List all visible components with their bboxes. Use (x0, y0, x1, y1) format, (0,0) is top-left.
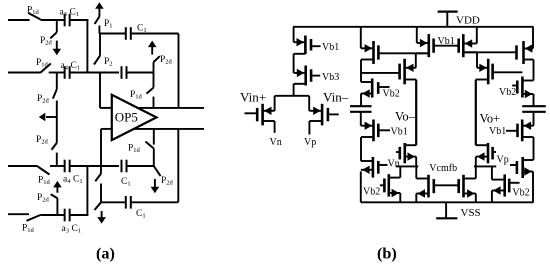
wire feedback bottom up (177, 129, 179, 202)
svg-text:P1d: P1d (130, 90, 143, 101)
wire left column 2 (360, 60, 362, 83)
switch P2d row2 left (53, 89, 57, 98)
wire row2 mid (69, 72, 119, 74)
svg-text:(a): (a) (96, 245, 115, 263)
svg-text:C1: C1 (71, 61, 81, 72)
arrow up row4 (53, 181, 62, 188)
switch P2 bottom (95, 174, 101, 182)
transistor M23 Vp right (521, 157, 524, 178)
wire P1d bottom vertical a (153, 129, 155, 145)
switch P1d bottom mid (145, 142, 153, 149)
wire row1 (40, 19, 64, 21)
switch P2d row1 (50, 32, 57, 38)
wire feedback top right (131, 33, 179, 35)
switch P1d row3 (38, 167, 50, 175)
wire node to row3 (56, 153, 58, 166)
svg-text:Vo–: Vo– (395, 110, 416, 124)
wire right column 4 (533, 112, 535, 126)
wire P2 vertical (99, 34, 101, 56)
svg-text:C1: C1 (137, 24, 147, 35)
wire R drain col (475, 166, 477, 178)
switch P2d row4 (51, 194, 58, 198)
op-amp OP5 (112, 95, 157, 140)
svg-text:a4: a4 (63, 175, 71, 186)
svg-text:P2d: P2d (160, 55, 173, 66)
wire vertical row1-row2 (86, 20, 88, 73)
wire node column mid (56, 101, 58, 143)
wire output bottom (135, 128, 205, 130)
wire P2d branch row1 (56, 20, 58, 32)
svg-text:Vb2: Vb2 (383, 89, 400, 100)
svg-text:P2d: P2d (36, 135, 49, 146)
svg-text:C1: C1 (72, 224, 82, 235)
transistor M10 cascode top left (427, 34, 430, 57)
transistor M9 Vn left (372, 157, 375, 178)
switch P2d row3 left (52, 143, 57, 150)
svg-text:a3: a3 (62, 224, 69, 235)
transistor M20 top right (522, 41, 525, 64)
svg-text:Vn: Vn (270, 137, 282, 148)
wire left column 6 (360, 171, 362, 202)
switch P2d row2 right (154, 56, 160, 62)
capacitor C1 feedback bottom (125, 196, 127, 209)
transistor M3 Vin+ input (261, 104, 264, 126)
arrow down P1 bottom (101, 211, 103, 217)
wire K drain col (399, 166, 401, 177)
wire P1 to fb (98, 26, 100, 34)
wire S1 left (396, 165, 418, 167)
wire bias column to tail (293, 84, 295, 96)
capacitor C1 row3 (121, 160, 123, 173)
wire K source col (399, 193, 401, 202)
svg-text:Vb2: Vb2 (363, 187, 380, 198)
capacitor a3C1 row4 (64, 209, 66, 222)
VDD rail (293, 26, 534, 28)
wire R source col (475, 194, 477, 203)
switch P1d row2 (40, 64, 51, 74)
wire H column (415, 157, 417, 167)
wire input stub row2 (8, 72, 40, 74)
wire output top (137, 107, 204, 109)
svg-text:Vb3: Vb3 (322, 72, 339, 83)
transistor M13 nmos cascode left (403, 143, 406, 163)
wire right column 3 (533, 94, 535, 106)
wire feedback top (99, 33, 125, 35)
switch P2d row3 right (154, 166, 161, 176)
wire row4 (40, 214, 64, 216)
svg-text:P1d: P1d (128, 144, 141, 155)
VDD symbol (438, 11, 458, 13)
wire row2 (49, 72, 64, 74)
transistor M8 Vb1 nmos left (372, 120, 375, 142)
switch P1 (95, 17, 100, 24)
transistor M14 Vb2 bottom left (387, 174, 390, 196)
wire drop E (476, 27, 478, 44)
svg-text:P2d: P2d (161, 176, 174, 187)
wire left column top (360, 27, 362, 49)
svg-text:Vb1: Vb1 (322, 42, 339, 53)
svg-text:Vb2: Vb2 (512, 188, 529, 199)
transistor M11 cascode top right (462, 34, 465, 57)
wire opamp in+ (100, 107, 112, 109)
svg-text:Vb1: Vb1 (391, 127, 408, 138)
svg-text:P1d: P1d (22, 224, 35, 235)
arrow up row2 right (148, 41, 157, 48)
wire chain node stub (153, 62, 155, 72)
wire row3 right (127, 165, 154, 167)
wire M17 gate wire (493, 71, 523, 73)
svg-text:Vin–: Vin– (323, 90, 349, 105)
wire row1 to node (69, 19, 88, 21)
wire P2d branch row2 left (56, 73, 58, 90)
wire right column 2 (533, 60, 535, 81)
wire P2d branch row4 (56, 198, 58, 215)
wire gate LR (434, 184, 459, 186)
wire left column 3 (360, 94, 362, 107)
svg-text:Vo+: Vo+ (480, 112, 501, 126)
wire right column 6 (532, 172, 534, 203)
wire row2 right (127, 72, 154, 74)
wire row3 mid (69, 165, 119, 167)
svg-text:P2d: P2d (37, 94, 50, 105)
wire row4 to node (69, 214, 88, 216)
arrow down row3 right (154, 179, 156, 187)
svg-text:P2: P2 (104, 57, 113, 68)
svg-text:(b): (b) (377, 245, 397, 263)
wire input stub row1 (8, 19, 30, 21)
transistor M17 pmos cascode right (487, 59, 490, 85)
svg-text:Vp: Vp (497, 155, 509, 166)
svg-text:C1: C1 (121, 177, 131, 188)
wire right column 5 (533, 137, 535, 160)
switch P1 bottom (95, 202, 102, 210)
svg-text:C1: C1 (73, 175, 83, 186)
switch P1d row1 (28, 13, 40, 19)
switch P2 (94, 56, 100, 65)
wire opamp in+ vertical (99, 73, 101, 108)
wire right column top (532, 27, 534, 49)
capacitor left (350, 105, 372, 107)
wire feedback bottom (101, 201, 125, 203)
arrow down row1 (56, 41, 58, 50)
wire T down right (476, 52, 478, 68)
transistor M21 Vb2 right (521, 77, 524, 98)
capacitor a4C1 row3 (64, 160, 66, 173)
wire tail right (308, 96, 310, 111)
wire P1d bottom vertical b (153, 149, 155, 167)
svg-text:P1d: P1d (38, 176, 51, 187)
transistor M19 Vb2 bottom right (503, 174, 506, 196)
svg-text:OP5: OP5 (115, 109, 138, 124)
wire M5 gate to mid (378, 52, 428, 54)
svg-text:P2d: P2d (37, 193, 50, 204)
wire left column 5 (360, 137, 362, 161)
VSS rail (361, 201, 534, 203)
wire input stub row4 (8, 213, 29, 215)
svg-text:Vin+: Vin+ (240, 90, 266, 105)
capacitor C1 feedback top (125, 27, 127, 40)
transistor M15 cmfb left (427, 175, 430, 198)
wire left column 4 (360, 112, 362, 124)
wire input stub row3 (8, 165, 38, 167)
wire vertical row3-row4 (86, 166, 88, 215)
capacitor C1 row2 (121, 66, 123, 79)
transistor M5 top left (372, 41, 375, 64)
transistor M22 Vb1 nmos right (521, 120, 524, 142)
switch P1d top mid (147, 88, 154, 94)
wire opamp in- vertical (100, 129, 102, 166)
svg-text:C1: C1 (70, 8, 80, 19)
wire corner to M8 (360, 124, 362, 126)
svg-text:Vb1: Vb1 (489, 126, 506, 137)
capacitor a3C1 row1 (64, 14, 66, 27)
wire P2 bottom vertical a (100, 166, 102, 174)
wire Vo- column (415, 80, 417, 146)
wire row3 (50, 165, 64, 167)
arrow left common node (46, 116, 57, 118)
svg-text:Vcmfb: Vcmfb (429, 163, 457, 174)
svg-text:P1d: P1d (36, 58, 49, 69)
transistor M2 Vb3 bias (304, 66, 307, 86)
wire bias column top (293, 27, 295, 42)
svg-text:Vp: Vp (304, 137, 316, 148)
svg-text:a4: a4 (61, 61, 69, 72)
wire K2 drain col (491, 166, 493, 179)
svg-text:P1d: P1d (27, 6, 40, 17)
wire drop D (416, 27, 418, 43)
wire S1 right (474, 165, 496, 167)
wire opamp in- (101, 128, 112, 130)
wire feedback top down (178, 34, 180, 108)
wire tail left (274, 96, 276, 111)
svg-text:Vn: Vn (388, 158, 400, 169)
wire M3 drain (274, 121, 276, 133)
transistor M1 Vb1 bias (304, 36, 307, 55)
wire M4 drain (308, 121, 310, 135)
wire K2 source col (491, 191, 493, 203)
capacitor a4C1 row2 (64, 66, 66, 79)
wire P1d top to out (153, 97, 155, 108)
svg-text:Vb2: Vb2 (499, 87, 516, 98)
capacitor right (522, 105, 546, 107)
arrow up P1 (95, 2, 104, 9)
transistor M6 Vb2 left (371, 79, 374, 98)
wire tail bar (275, 95, 310, 97)
wire H2 column (475, 157, 477, 167)
transistor M4 Vin- input (321, 104, 324, 126)
svg-text:VDD: VDD (456, 15, 480, 27)
svg-text:P1: P1 (104, 19, 113, 30)
wire P2 bottom vertical b (100, 184, 102, 203)
VSS symbol (445, 202, 447, 218)
wire feedback bottom right (131, 201, 179, 203)
wire L drain col (415, 166, 417, 178)
transistor M16 cmfb right (462, 175, 465, 198)
wire P1d top vertical (153, 73, 155, 88)
transistor M12 pmos cascode left (403, 59, 406, 85)
switch P1d row4 (27, 215, 41, 221)
transistor M18 nmos cascode right (487, 143, 490, 163)
wire T down left (415, 53, 417, 68)
wire gate DE (434, 45, 459, 47)
svg-text:C1: C1 (136, 209, 146, 220)
wire bias column mid (293, 54, 295, 73)
svg-text:VSS: VSS (461, 207, 481, 219)
wire L source col (415, 194, 417, 203)
svg-text:a3: a3 (60, 8, 67, 19)
wire M7 gate wire (361, 72, 400, 74)
wire Vo+ column (475, 80, 477, 146)
wire E drain line (463, 51, 516, 53)
